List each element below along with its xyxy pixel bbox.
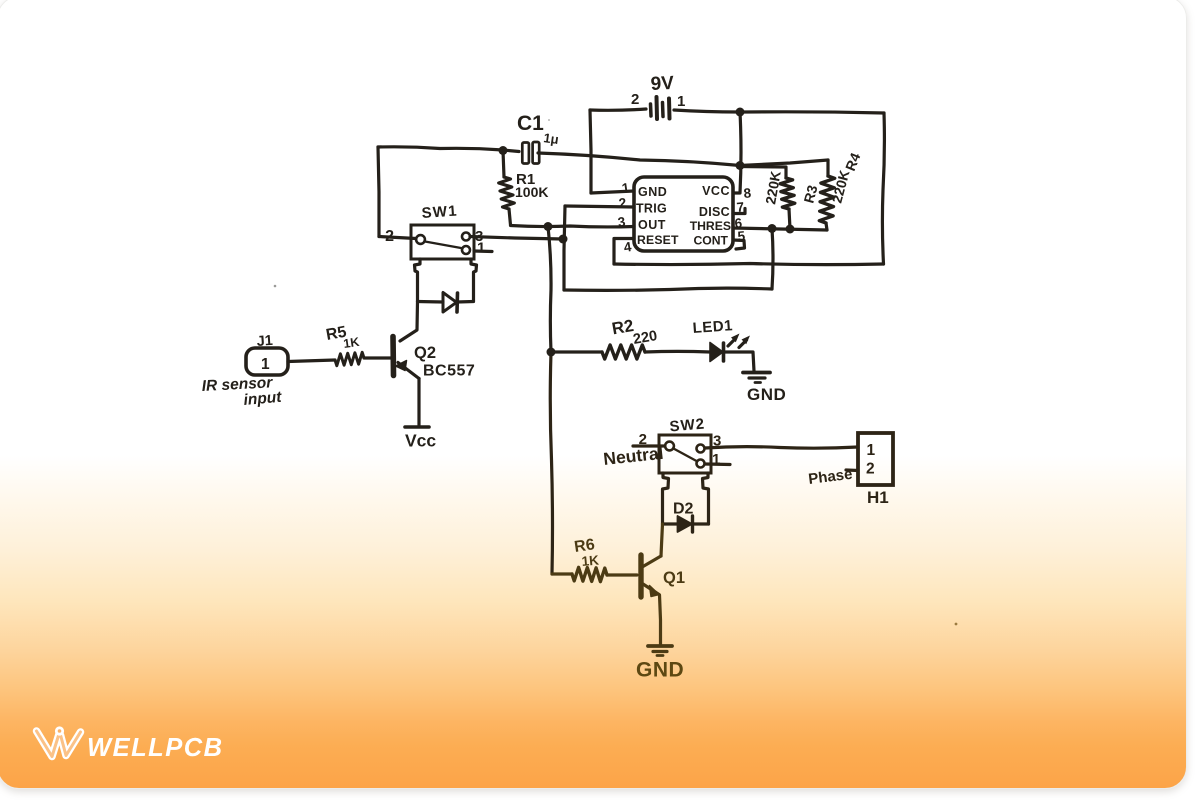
- wire: [457, 300, 474, 304]
- resistor R3: [762, 170, 820, 209]
- svg-text:Neutral: Neutral: [602, 443, 664, 469]
- wire: [503, 151, 504, 178]
- pin 7 stub: [733, 209, 745, 214]
- svg-text:1K: 1K: [581, 553, 600, 569]
- svg-text:D2: D2: [673, 501, 694, 518]
- wire: [826, 223, 827, 230]
- svg-text:input: input: [243, 389, 283, 409]
- wire: [364, 356, 391, 359]
- op-amp U1 555 timer: [634, 177, 733, 251]
- svg-text:220: 220: [632, 328, 659, 348]
- svg-text:R2: R2: [610, 316, 635, 338]
- transistor Q2: [393, 337, 475, 380]
- svg-text:R4: R4: [842, 150, 864, 173]
- wire: [723, 352, 754, 371]
- node VCC junction: [736, 161, 745, 170]
- connector H1: [858, 433, 893, 507]
- svg-text:OUT: OUT: [638, 218, 666, 232]
- svg-text:4: 4: [623, 239, 633, 255]
- svg-text:9V: 9V: [650, 73, 675, 95]
- wire: [663, 473, 669, 524]
- pin 4 wire: [614, 239, 634, 265]
- logo WELLPCB icon: [37, 728, 81, 757]
- pin 2 wire: [379, 237, 416, 239]
- wire: [772, 229, 773, 290]
- svg-text:BC557: BC557: [423, 363, 475, 380]
- wire: [552, 572, 572, 575]
- node C1-R1 junction: [499, 146, 508, 155]
- node speck: [274, 285, 277, 288]
- svg-text:SW2: SW2: [669, 415, 706, 435]
- pin 3 wire: [705, 447, 858, 449]
- wire: [789, 209, 790, 229]
- svg-text:LED1: LED1: [692, 317, 733, 337]
- wire: [417, 379, 420, 426]
- pin 1 wire: [591, 191, 634, 193]
- wire: [503, 150, 519, 152]
- ground GND2: [636, 646, 684, 682]
- svg-text:8: 8: [743, 185, 752, 201]
- node OUT junction: [544, 222, 553, 231]
- svg-text:J1: J1: [256, 333, 273, 350]
- svg-text:C1: C1: [517, 112, 544, 135]
- svg-text:3: 3: [617, 214, 627, 230]
- svg-text:1: 1: [477, 240, 485, 257]
- battery BT1 9V: [631, 73, 685, 119]
- svg-text:TRIG: TRIG: [636, 202, 667, 216]
- node speck: [548, 119, 550, 121]
- capacitor C1: [517, 112, 560, 164]
- wire: [415, 259, 421, 301]
- wire: [564, 206, 565, 290]
- svg-text:1: 1: [261, 356, 270, 373]
- wire: [703, 473, 709, 524]
- resistor R6: [572, 536, 607, 581]
- svg-text:SW1: SW1: [421, 203, 458, 222]
- pin 1 stub: [474, 249, 492, 253]
- svg-text:1: 1: [867, 442, 876, 459]
- pin 6 wire: [733, 228, 827, 230]
- label IR sensor input: [201, 374, 283, 409]
- switch SW1: [411, 203, 474, 259]
- svg-text:2: 2: [618, 195, 628, 211]
- svg-text:100K: 100K: [515, 184, 548, 200]
- wire: [400, 302, 418, 342]
- connector J1: [246, 333, 288, 375]
- wire: [645, 350, 710, 354]
- pin 2 wire: [633, 444, 665, 447]
- resistor R1: [499, 171, 549, 209]
- svg-text:GND: GND: [636, 659, 684, 682]
- wire: [550, 352, 552, 574]
- resistor R4: [819, 150, 863, 223]
- svg-text:H1: H1: [867, 488, 889, 507]
- svg-text:220K: 220K: [828, 168, 852, 204]
- wire: [378, 147, 379, 237]
- wire: [590, 109, 646, 110]
- LED LED1: [692, 317, 750, 361]
- node SW1-TRIG junction: [559, 235, 568, 244]
- node battery junction: [736, 108, 745, 117]
- wire: [551, 350, 602, 353]
- pin 3 wire: [511, 226, 635, 227]
- svg-text:1: 1: [621, 180, 631, 196]
- svg-text:GND: GND: [747, 385, 786, 404]
- wire: [614, 264, 884, 265]
- pin 2 stub: [846, 468, 858, 472]
- svg-text:Q2: Q2: [414, 344, 436, 362]
- wire: [663, 522, 678, 525]
- pin 2 wire: [565, 206, 634, 207]
- wire: [740, 167, 786, 179]
- svg-text:2: 2: [631, 91, 639, 108]
- diode D2: [673, 501, 694, 533]
- switch SW2: [659, 415, 711, 473]
- wire: [607, 573, 637, 576]
- wire: [471, 259, 477, 301]
- pin 3 wire: [470, 237, 563, 240]
- node TRIG-THRES junction: [768, 224, 777, 233]
- node speck: [955, 623, 958, 626]
- svg-text:R3: R3: [800, 183, 820, 205]
- wire: [590, 110, 591, 193]
- svg-text:Q1: Q1: [663, 569, 685, 587]
- svg-text:2: 2: [866, 461, 875, 478]
- transistor Q1: [641, 555, 685, 597]
- diode D1: [443, 293, 458, 313]
- wire: [538, 153, 828, 166]
- svg-text:DISC: DISC: [699, 205, 730, 219]
- wire: [661, 524, 663, 556]
- wire: [288, 360, 335, 362]
- ground GND1: [743, 373, 786, 405]
- node R2 junction: [547, 348, 556, 357]
- svg-text:RESET: RESET: [637, 233, 679, 247]
- wire: [509, 209, 511, 225]
- node R3 junction: [786, 225, 795, 234]
- svg-text:1: 1: [677, 93, 685, 110]
- wire: [734, 112, 741, 193]
- svg-text:CONT: CONT: [693, 234, 728, 248]
- pin 5 stub: [733, 240, 745, 249]
- wire: [660, 595, 661, 645]
- svg-text:THRES: THRES: [690, 219, 731, 233]
- svg-text:2: 2: [385, 228, 394, 245]
- wire: [882, 113, 884, 264]
- resistor R5: [325, 324, 364, 366]
- wire: [418, 300, 444, 304]
- svg-text:Vcc: Vcc: [405, 431, 436, 451]
- wire: [692, 522, 709, 525]
- svg-text:VCC: VCC: [702, 184, 730, 198]
- wire: [548, 227, 551, 353]
- power VCC: [405, 427, 436, 451]
- resistor R2: [602, 316, 659, 359]
- svg-text:1K: 1K: [342, 335, 360, 351]
- wire: [826, 160, 829, 176]
- pin 1 stub: [705, 462, 730, 466]
- svg-text:1μ: 1μ: [543, 130, 560, 147]
- wire: [674, 110, 884, 113]
- wire: [378, 147, 503, 150]
- svg-text:WELLPCB: WELLPCB: [87, 734, 224, 762]
- wire: [564, 288, 772, 290]
- svg-text:GND: GND: [638, 185, 667, 199]
